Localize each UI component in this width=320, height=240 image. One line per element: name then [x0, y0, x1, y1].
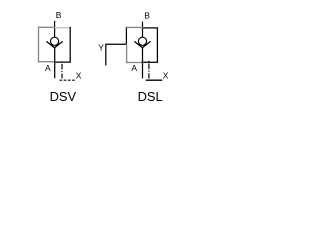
wire: B port line (DSL) — [142, 22, 144, 38]
check valve seat V (DSL) — [134, 41, 150, 47]
envelope box black edges (DSV): right, bottom-right — [54, 27, 70, 62]
envelope box gray bottom-left edge (DSL) — [126, 62, 142, 64]
wire: A port line (DSV) — [54, 48, 56, 78]
envelope box gray top-left edge (DSV) — [38, 26, 55, 28]
envelope box light-gray top-right edge (DSV) — [55, 27, 71, 29]
wire: A port line (DSL) — [142, 48, 144, 79]
envelope box black edges (DSL): top-right, right, bottom-right — [141, 28, 157, 62]
svg-text:X: X — [76, 70, 82, 80]
svg-text:B: B — [56, 10, 62, 20]
check valve ball (DSV) — [51, 37, 59, 45]
svg-text:DSV: DSV — [50, 89, 77, 104]
wire: Y port elbow line (DSL) — [106, 44, 127, 65]
wire: X port horizontal line (DSL) — [146, 79, 163, 81]
svg-text:DSL: DSL — [138, 89, 163, 104]
svg-text:Y: Y — [98, 42, 104, 52]
svg-text:A: A — [131, 63, 137, 73]
pilot line X horizontal dashed (DSV) — [60, 79, 77, 81]
svg-text:X: X — [163, 71, 169, 81]
envelope box gray top-left edge (DSL) — [126, 26, 143, 28]
envelope box gray bottom-left edge (DSV) — [38, 61, 55, 63]
svg-text:A: A — [45, 63, 51, 73]
pilot line X vertical dash-dot (DSV) — [61, 61, 63, 78]
check valve ball (DSL) — [138, 37, 146, 45]
envelope box gray left edge (DSV) — [38, 27, 40, 63]
wire: B port line (DSV) — [54, 21, 56, 38]
svg-text:B: B — [144, 10, 150, 20]
check valve seat V (DSV) — [46, 41, 62, 47]
envelope box black left-upper edge (DSL) — [125, 27, 127, 45]
envelope box gray left-lower edge (DSL) — [126, 44, 128, 63]
pilot line X vertical dash-dot (DSL) — [148, 61, 150, 79]
